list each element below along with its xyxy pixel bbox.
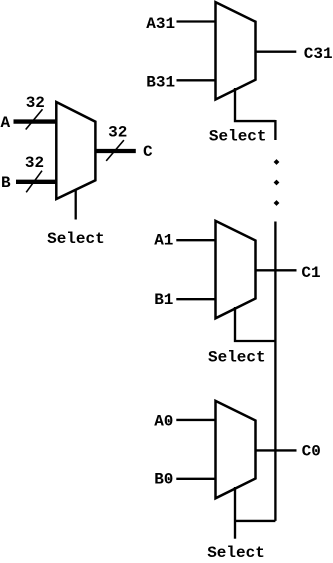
wire B0 <box>176 478 217 480</box>
ellipsis dot 2 <box>274 180 280 186</box>
bus-width slash A <box>26 109 43 129</box>
svg-text:32: 32 <box>108 124 127 142</box>
svg-text:Select: Select <box>207 544 265 562</box>
svg-text:B1: B1 <box>154 291 173 309</box>
multiplexer bit 1 <box>216 221 256 318</box>
ellipsis dot 3 <box>274 200 280 206</box>
svg-text:B: B <box>1 174 11 192</box>
svg-text:B31: B31 <box>146 74 175 92</box>
svg-text:B0: B0 <box>154 471 173 489</box>
svg-text:32: 32 <box>25 154 44 172</box>
wire B bus <box>16 180 58 184</box>
svg-text:C0: C0 <box>302 442 321 460</box>
select stub (bus mux) <box>75 190 77 220</box>
svg-text:C1: C1 <box>301 264 320 282</box>
select bus vertical <box>274 222 276 521</box>
svg-text:Select: Select <box>208 349 266 367</box>
wire C31 <box>256 51 297 53</box>
wire A1 <box>176 239 217 241</box>
dotted zero center (A0) <box>168 420 170 422</box>
svg-text:C31: C31 <box>304 45 333 63</box>
multiplexer bit 31 <box>216 2 256 99</box>
select stub mux31 <box>235 88 275 121</box>
select bus drop (top) <box>274 120 276 140</box>
dotted zero center (C0) <box>315 450 317 452</box>
wire C1 <box>256 269 297 271</box>
svg-text:A0: A0 <box>154 413 173 431</box>
ellipsis dot 1 <box>274 159 280 165</box>
wire B1 <box>176 298 217 300</box>
svg-text:Select: Select <box>209 127 267 145</box>
multiplexer bit 0 <box>216 401 256 498</box>
bus-width slash B <box>26 171 42 193</box>
svg-text:A: A <box>1 114 11 132</box>
select stub mux1 <box>235 307 275 341</box>
svg-text:A1: A1 <box>154 232 173 250</box>
bus-width slash C <box>106 140 124 161</box>
wire A31 <box>177 20 218 22</box>
svg-text:Select: Select <box>47 230 105 248</box>
wire B31 <box>177 79 218 81</box>
svg-text:C: C <box>143 143 153 161</box>
wire A bus <box>14 119 59 123</box>
multiplexer (32-bit bus view) <box>56 102 95 199</box>
wire A0 <box>176 419 217 421</box>
wire C0 <box>256 449 297 451</box>
svg-text:A31: A31 <box>146 15 175 33</box>
select stub mux0 <box>234 487 236 539</box>
svg-text:32: 32 <box>26 94 45 112</box>
wire C bus <box>95 149 135 153</box>
select bus junction mux0 <box>235 520 275 522</box>
dotted zero center (B0) <box>168 478 170 480</box>
